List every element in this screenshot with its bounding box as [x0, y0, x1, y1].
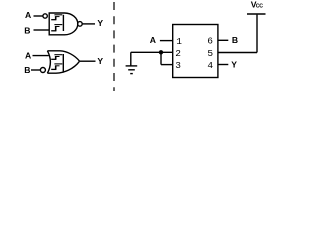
- svg-text:6: 6: [207, 36, 213, 47]
- svg-text:B: B: [24, 26, 30, 36]
- svg-text:B: B: [24, 65, 30, 75]
- svg-text:4: 4: [207, 60, 213, 71]
- svg-text:1: 1: [176, 36, 182, 47]
- svg-text:5: 5: [207, 48, 213, 59]
- svg-text:B: B: [232, 35, 238, 45]
- svg-text:Y: Y: [97, 56, 103, 66]
- svg-text:A: A: [150, 35, 156, 45]
- svg-text:2: 2: [175, 48, 181, 59]
- svg-text:Y: Y: [97, 18, 103, 28]
- svg-text:3: 3: [175, 60, 181, 71]
- svg-text:Y: Y: [231, 59, 237, 69]
- svg-text:A: A: [25, 51, 31, 61]
- svg-text:CC: CC: [256, 4, 263, 10]
- svg-text:A: A: [25, 10, 31, 20]
